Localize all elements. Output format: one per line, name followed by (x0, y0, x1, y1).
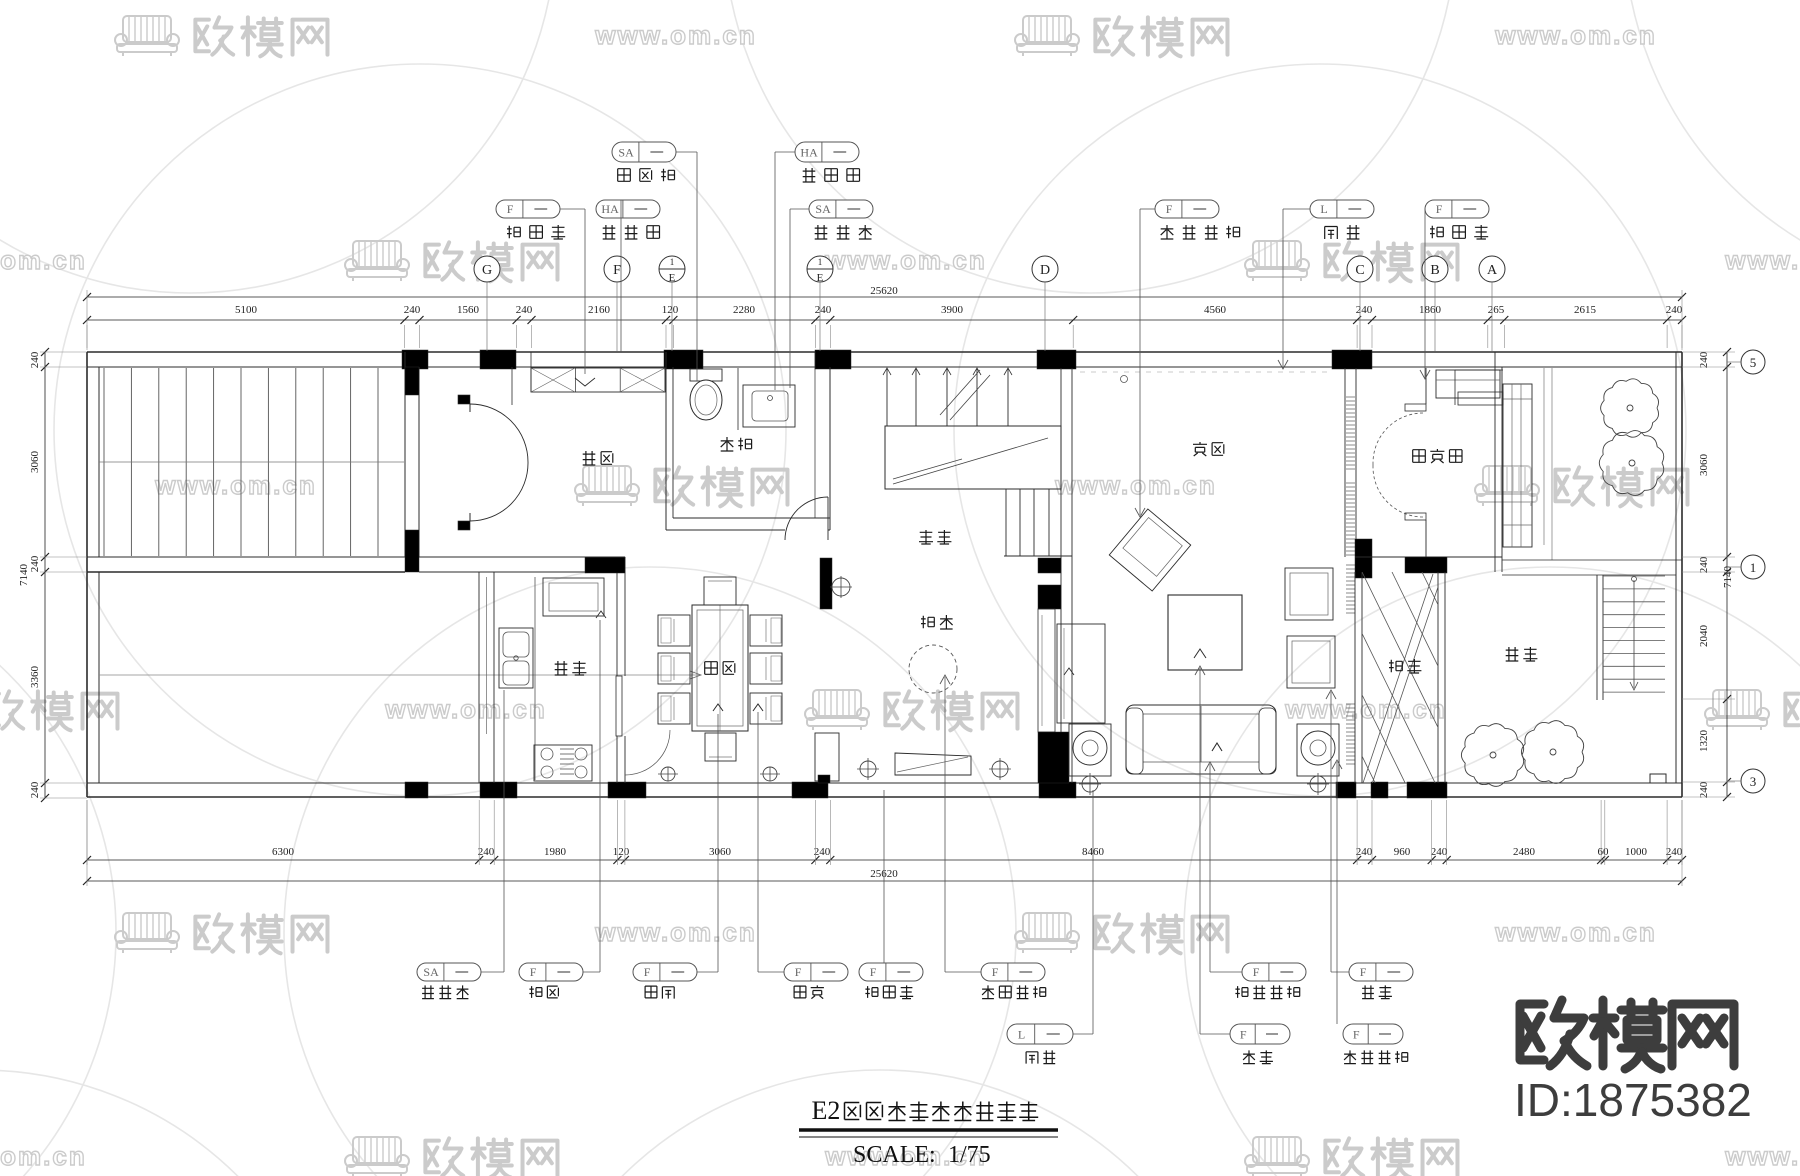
svg-text:SCALE:: SCALE: (853, 1142, 936, 1168)
svg-text:3060: 3060 (1698, 454, 1710, 477)
svg-text:F: F (1436, 202, 1443, 216)
svg-text:ID:1875382: ID:1875382 (1514, 1074, 1752, 1126)
bottom callouts row2 (1007, 1024, 1073, 1044)
svg-text:1: 1 (818, 257, 823, 267)
svg-text:F: F (1240, 1027, 1247, 1041)
svg-text:F: F (1166, 202, 1173, 216)
closet (531, 368, 665, 392)
svg-text:1860: 1860 (1419, 304, 1442, 316)
svg-text:SA: SA (618, 145, 634, 159)
entry double door (458, 395, 470, 404)
svg-text:25620: 25620 (870, 285, 898, 297)
svg-text:3060: 3060 (709, 846, 732, 858)
svg-text:2040: 2040 (1698, 625, 1710, 648)
dining table (692, 605, 748, 731)
dimensions right (1726, 352, 1728, 797)
svg-text:240: 240 (1666, 304, 1683, 316)
grid bubbles top (474, 256, 500, 282)
svg-text:960: 960 (1394, 846, 1411, 858)
svg-text:120: 120 (613, 846, 630, 858)
svg-text:HA: HA (601, 202, 619, 216)
plan (87, 351, 1682, 353)
outer foyer (1405, 404, 1426, 411)
central stair (886, 368, 888, 426)
svg-text:2480: 2480 (1513, 846, 1536, 858)
svg-text:www.om.cn: www.om.cn (1494, 917, 1657, 947)
svg-text:F: F (1353, 1027, 1360, 1041)
svg-text:www.om.cn: www.om.cn (1284, 694, 1447, 724)
svg-text:240: 240 (1698, 351, 1710, 368)
svg-text:www.om.cn: www.om.cn (384, 694, 547, 724)
dimensions bottom (87, 859, 1682, 861)
svg-text:3360: 3360 (29, 666, 41, 689)
svg-text:7140: 7140 (1722, 566, 1734, 589)
svg-text:240: 240 (1698, 556, 1710, 573)
grid bubbles right (1741, 350, 1765, 374)
svg-text:240: 240 (404, 304, 421, 316)
dimensions left (44, 352, 46, 798)
svg-text:D: D (1040, 263, 1050, 278)
svg-text:www.om.cn: www.om.cn (1494, 20, 1657, 50)
svg-text:L: L (1018, 1027, 1025, 1041)
svg-text:1: 1 (670, 257, 675, 267)
svg-text:2160: 2160 (588, 304, 611, 316)
svg-text:F: F (530, 965, 537, 979)
living room (1080, 371, 1330, 373)
svg-text:F: F (507, 202, 514, 216)
svg-text:SA: SA (423, 965, 439, 979)
svg-text:F: F (613, 263, 621, 278)
svg-text:240: 240 (29, 555, 41, 572)
svg-text:F: F (992, 965, 999, 979)
svg-text:1980: 1980 (544, 846, 567, 858)
dimensions top (87, 296, 1682, 298)
svg-text:www.om.cn: www.om.cn (1724, 245, 1800, 275)
svg-text:www.om.cn: www.om.cn (0, 1141, 87, 1171)
stairs left (103, 368, 105, 556)
atrium (820, 558, 832, 609)
svg-text:1000: 1000 (1625, 846, 1648, 858)
svg-text:240: 240 (29, 781, 41, 798)
svg-text:3: 3 (1750, 774, 1757, 789)
svg-text:6300: 6300 (272, 846, 295, 858)
svg-text:www.om.cn: www.om.cn (594, 20, 757, 50)
svg-text:240: 240 (29, 351, 41, 368)
svg-text:240: 240 (1356, 846, 1373, 858)
top callouts (612, 142, 676, 162)
svg-text:C: C (1355, 263, 1364, 278)
svg-text:F: F (1360, 965, 1367, 979)
svg-text:2615: 2615 (1574, 304, 1597, 316)
svg-text:5100: 5100 (235, 304, 258, 316)
svg-text:www.om.cn: www.om.cn (594, 917, 757, 947)
svg-text:F: F (870, 965, 877, 979)
svg-text:F: F (795, 965, 802, 979)
svg-text:240: 240 (815, 304, 832, 316)
svg-text:5: 5 (1750, 355, 1757, 370)
svg-text:1: 1 (1750, 560, 1757, 575)
svg-text:240: 240 (516, 304, 533, 316)
svg-text:F: F (1253, 965, 1260, 979)
svg-text:1320: 1320 (1698, 730, 1710, 753)
bottom callouts row1 (417, 963, 481, 981)
svg-text:A: A (1487, 263, 1498, 278)
svg-text:240: 240 (1431, 846, 1448, 858)
svg-text:HA: HA (800, 145, 818, 159)
svg-text:240: 240 (478, 846, 495, 858)
svg-text:3900: 3900 (941, 304, 964, 316)
bathroom (665, 352, 667, 530)
svg-text:www.om.cn: www.om.cn (1724, 1141, 1800, 1171)
svg-text:2280: 2280 (733, 304, 756, 316)
svg-text:B: B (1430, 263, 1439, 278)
omw logo (1520, 1004, 1544, 1060)
svg-text:3060: 3060 (29, 451, 41, 474)
svg-text:240: 240 (1698, 781, 1710, 798)
garden wall+stairs (1502, 559, 1682, 561)
svg-text:www.om.cn: www.om.cn (824, 245, 987, 275)
room labels (583, 451, 596, 465)
svg-text:4560: 4560 (1204, 304, 1227, 316)
svg-text:1/75: 1/75 (948, 1142, 991, 1168)
trees (1601, 379, 1659, 437)
svg-text:SA: SA (815, 202, 831, 216)
svg-text:7140: 7140 (18, 564, 30, 587)
svg-text:www.om.cn: www.om.cn (1054, 470, 1217, 500)
svg-text:240: 240 (1666, 846, 1683, 858)
svg-text:1560: 1560 (457, 304, 480, 316)
svg-text:E2: E2 (812, 1096, 841, 1125)
svg-text:120: 120 (662, 304, 679, 316)
svg-text:F: F (644, 965, 651, 979)
svg-text:G: G (482, 263, 492, 278)
lightwell (1354, 572, 1356, 783)
watermark layer (54, 64, 786, 796)
svg-text:www.om.cn: www.om.cn (154, 470, 317, 500)
svg-text:240: 240 (1356, 304, 1373, 316)
kitchen (478, 572, 480, 783)
svg-text:www.om.cn: www.om.cn (0, 245, 87, 275)
svg-text:240: 240 (814, 846, 831, 858)
svg-text:265: 265 (1488, 304, 1505, 316)
svg-text:L: L (1320, 202, 1327, 216)
svg-text:60: 60 (1598, 846, 1610, 858)
